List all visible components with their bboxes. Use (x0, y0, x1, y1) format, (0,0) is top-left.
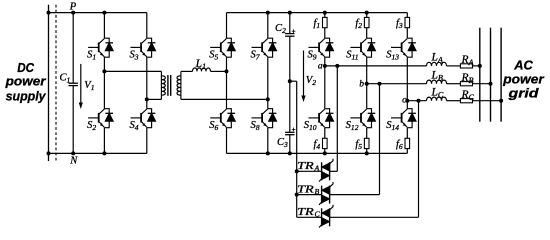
junction rail2 C2 top (288, 11, 292, 15)
wire grid bus phase 3 (500, 28, 502, 122)
junction leg2 midpoint (145, 97, 149, 101)
transistor S5 (IGBT with antiparallel diode) (210, 38, 235, 57)
wire leg A (S9/S10) fuse-to-rail (324, 149, 326, 154)
junction rail2 f1 top (323, 11, 327, 15)
svg-text:TR: TR (297, 207, 314, 218)
wire C1 branch lower (72, 86, 74, 154)
wire leg B (S11/S12) fuse-to-switch (366, 28, 368, 39)
capacitor C1 (69, 82, 78, 84)
resistor RC (460, 99, 472, 103)
wire TRA right lead (330, 170, 338, 172)
wire grid bus phase 1 (479, 28, 481, 122)
junction rail2 f2 top (365, 11, 369, 15)
junction node N junction (47, 151, 51, 155)
thyristor pair TRB (antiparallel SCRs) (319, 182, 333, 205)
transistor S3 (IGBT with antiparallel diode) (131, 38, 156, 57)
transistor S7 (IGBT with antiparallel diode) (252, 38, 277, 57)
wire leg B (S11/S12) switch-to-fuse (366, 128, 368, 139)
wire TRC right lead (330, 216, 419, 218)
wire transformer primary top lead (104, 70, 161, 72)
wire leg C (S13/S14) fuse-to-rail (406, 149, 408, 154)
wire leg C (S13/S14) middle (406, 57, 408, 108)
transistor S10 (IGBT with antiparallel diode) (309, 109, 334, 128)
wire tap phase a to TRA (336, 66, 338, 171)
wire leg S7/S8 lower (267, 128, 269, 154)
wire phase a (325, 65, 427, 67)
wire bottom rail (bridges 2-3) (227, 152, 408, 154)
transistor S11 (IGBT with antiparallel diode) (350, 38, 375, 57)
wire TRA left lead (297, 170, 322, 172)
resistor RB (460, 82, 472, 86)
wire bottom rail (bridge 1, node N) (49, 152, 147, 154)
junction leg S1 top (102, 11, 106, 15)
junction node b (365, 82, 369, 86)
junction grid phase 1 junction (478, 64, 482, 68)
wire thyristor common bus (296, 81, 298, 217)
inductor LA (427, 62, 447, 66)
wire TRB left lead (297, 194, 322, 196)
wire leg A (S9/S10) fuse-to-switch (324, 28, 326, 39)
svg-text:N: N (69, 155, 78, 166)
thyristor pair TRA (antiparallel SCRs) (319, 159, 333, 182)
fuse f6 (405, 138, 410, 148)
transistor S13 (IGBT with antiparallel diode) (391, 38, 416, 57)
junction grid phase 3 junction (499, 99, 503, 103)
wire LA to RA (447, 65, 461, 67)
junction TRB bus junction (295, 193, 299, 197)
svg-text:power: power (502, 72, 545, 87)
junction grid phase 2 junction (489, 82, 493, 86)
junction C1 bottom (71, 151, 75, 155)
wire leg S7/S8 middle (267, 57, 269, 108)
junction rail2 S8 bottom (266, 151, 270, 155)
svg-text:a: a (318, 62, 323, 72)
svg-text:TR: TR (297, 184, 314, 195)
junction rail2 f4 bottom (323, 151, 327, 155)
wire leg S5/S6 upper (226, 13, 228, 39)
wire C2/C3 branch middle (289, 36, 291, 132)
capacitor C2 (285, 33, 294, 35)
svg-text:power: power (5, 74, 47, 89)
transistor S2 (IGBT with antiparallel diode) (88, 109, 113, 128)
wire RB to grid (472, 83, 490, 85)
wire grid bus phase 2 (490, 28, 492, 122)
junction DC midpoint (288, 79, 292, 83)
transformer T1 (161, 71, 181, 99)
transistor S14 (IGBT with antiparallel diode) (391, 109, 416, 128)
wire LB to RB (447, 83, 461, 85)
thyristor pair TRC (antiparallel SCRs) (319, 205, 333, 228)
svg-text:b: b (359, 79, 364, 89)
wire transformer secondary top lead (181, 70, 193, 72)
wire phase b (367, 83, 427, 85)
svg-text:C: C (315, 210, 321, 219)
transistor S1 (IGBT with antiparallel diode) (88, 38, 113, 57)
wire leg C (S13/S14) switch-to-fuse (406, 128, 408, 139)
wire C2/C3 branch lower (289, 135, 291, 154)
svg-text:B: B (315, 187, 320, 196)
wire leg S5/S6 lower (226, 128, 228, 154)
wire leg B (S11/S12) fuse-to-rail (366, 149, 368, 154)
svg-text:TR: TR (297, 161, 314, 172)
svg-text:A: A (314, 164, 320, 173)
junction S7 leg midpoint (266, 97, 270, 101)
wire leg S1/S2 middle (103, 57, 105, 108)
inductor LC (427, 97, 447, 101)
fuse f3 (405, 17, 410, 27)
svg-text:DC: DC (17, 60, 34, 75)
junction rail2 C3 bottom (288, 151, 292, 155)
inductor L1 (193, 68, 211, 71)
wire leg B (S11/S12) rail-to-fuse (366, 13, 368, 18)
wire tap phase c to TRC (418, 101, 420, 218)
transistor S9 (IGBT with antiparallel diode) (309, 38, 334, 57)
wire leg A (S9/S10) middle (324, 57, 326, 108)
wire leg A (S9/S10) switch-to-fuse (324, 128, 326, 139)
junction leg1 midpoint (102, 69, 106, 73)
svg-text:grid: grid (507, 86, 540, 101)
fuse f1 (323, 17, 328, 27)
junction node P / C1 top (71, 11, 75, 15)
junction node a (323, 64, 327, 68)
transistor S4 (IGBT with antiparallel diode) (131, 109, 156, 128)
arrow V2 (voltage arrow) (303, 51, 305, 98)
wire leg S3/S4 middle (146, 57, 148, 108)
wire leg S3/S4 lower (146, 128, 148, 154)
wire LC to RC (447, 100, 461, 102)
capacitor C3 (285, 131, 294, 133)
wire TRC left lead (297, 216, 322, 218)
wire leg S7/S8 upper (267, 13, 269, 39)
wire top rail (bridge 1, node P) (49, 12, 147, 14)
wire leg A (S9/S10) rail-to-fuse (324, 13, 326, 18)
wire RC to grid (472, 100, 501, 102)
junction TRA bus junction (295, 169, 299, 173)
junction rail2 f5 bottom (365, 151, 369, 155)
wire TRB right lead (330, 194, 380, 196)
junction leg S2 bottom (102, 151, 106, 155)
wire leg C (S13/S14) fuse-to-switch (406, 28, 408, 39)
transistor S12 (IGBT with antiparallel diode) (350, 109, 375, 128)
wire DC midpoint tap horizontal (290, 80, 297, 82)
wire L1 to bridge 2 (211, 70, 227, 72)
resistor RA (460, 64, 472, 68)
svg-text:AC: AC (513, 57, 533, 72)
junction node c (405, 99, 409, 103)
transistor S6 (IGBT with antiparallel diode) (210, 109, 235, 128)
junction rail2 S7 top (266, 11, 270, 15)
wire RA to grid (472, 65, 480, 67)
junction node a tap (335, 64, 339, 68)
fuse f4 (323, 138, 328, 148)
junction node b tap (378, 82, 382, 86)
junction node P junction (47, 11, 51, 15)
wire leg S1/S2 upper (103, 13, 105, 39)
arrow V1 (voltage arrow) (80, 64, 82, 105)
wire phase c (407, 100, 426, 102)
wire transformer secondary bottom lead (181, 98, 268, 100)
junction S5 leg midpoint (225, 69, 229, 73)
wire leg S3/S4 upper (146, 13, 148, 39)
wire transformer primary bottom lead (147, 98, 162, 100)
transistor S8 (IGBT with antiparallel diode) (252, 109, 277, 128)
fuse f2 (364, 17, 369, 27)
inductor LB (427, 80, 447, 84)
wire leg C (S13/S14) rail-to-fuse (406, 13, 408, 18)
wire C2/C3 branch upper (289, 13, 291, 34)
svg-text:supply: supply (6, 89, 47, 104)
wire tap phase b to TRB (379, 84, 381, 195)
junction node c tap (417, 99, 421, 103)
wire leg S1/S2 lower (103, 128, 105, 154)
wire leg S5/S6 middle (226, 57, 228, 108)
wire DC bus (dashed) (55, 5, 57, 161)
fuse f5 (364, 138, 369, 148)
wire leg B (S11/S12) middle (366, 57, 368, 108)
wire C1 branch upper (72, 13, 74, 84)
wire top rail (bridges 2-3) (227, 12, 408, 14)
wire DC bus (solid) (48, 5, 50, 161)
